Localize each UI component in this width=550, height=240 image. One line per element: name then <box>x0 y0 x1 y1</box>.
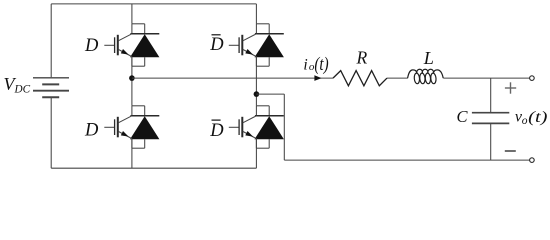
battery VDC plate 3 (long) <box>33 90 69 92</box>
capacitor C bottom lead <box>490 124 492 160</box>
battery VDC plate 2 (short) <box>42 83 59 85</box>
top bus wire <box>51 3 256 5</box>
svg-text:R: R <box>356 48 368 68</box>
overbar of Dbar (S4) <box>212 119 221 121</box>
left wire upper <box>50 4 52 77</box>
wire resistor to inductor <box>387 77 408 79</box>
resistor R zigzag <box>333 71 387 86</box>
plus sign at output <box>505 82 516 93</box>
leg 1 top segment <box>131 4 133 24</box>
capacitor C top lead <box>490 78 492 112</box>
battery VDC plate 1 (long) <box>33 77 69 79</box>
leg 2 top segment <box>255 4 257 24</box>
bottom output wire to bottom terminal <box>284 159 529 161</box>
wire from node B <box>256 93 284 95</box>
overbar of Dbar (S2) <box>212 34 221 36</box>
switch cell S3 (bottom-left, D) <box>104 106 159 148</box>
current arrow io(t) <box>314 75 321 81</box>
switch cell S4 (bottom-right, Dbar) <box>229 106 284 148</box>
leg 1 middle segment <box>131 57 133 106</box>
svg-text:D: D <box>209 35 224 55</box>
svg-text:D: D <box>209 121 224 141</box>
leg 2 bottom segment <box>255 139 257 169</box>
output terminal bottom <box>530 158 535 163</box>
node A junction dot (leg 1 midpoint) <box>129 75 135 81</box>
svg-text:L: L <box>423 48 434 68</box>
wire down right of bridge <box>283 94 285 160</box>
output wire from node A to resistor <box>132 77 333 79</box>
svg-text:VDC: VDC <box>4 74 31 95</box>
switch cell S2 (top-right, Dbar) <box>229 24 284 66</box>
svg-text:vo(t): vo(t) <box>515 109 548 127</box>
svg-text:D: D <box>84 36 99 56</box>
inductor L coil <box>408 69 444 84</box>
output terminal top <box>530 76 535 81</box>
leg 2 middle segment (crosses output wire, no connection) <box>255 57 257 106</box>
leg 1 bottom segment <box>131 139 133 169</box>
svg-text:C: C <box>457 107 469 126</box>
bottom bus wire <box>51 167 256 169</box>
minus sign at output <box>505 150 516 152</box>
battery VDC plate 4 (short) <box>42 96 59 98</box>
capacitor C bottom plate <box>472 122 509 124</box>
svg-text:io(t): io(t) <box>303 54 328 75</box>
wire inductor to top terminal <box>443 77 529 79</box>
switch cell S1 (top-left, D) <box>104 24 159 66</box>
svg-text:D: D <box>84 120 99 140</box>
capacitor C top plate <box>472 112 509 114</box>
left wire lower <box>50 98 52 168</box>
node B junction dot (leg 2 midpoint) <box>254 91 260 97</box>
